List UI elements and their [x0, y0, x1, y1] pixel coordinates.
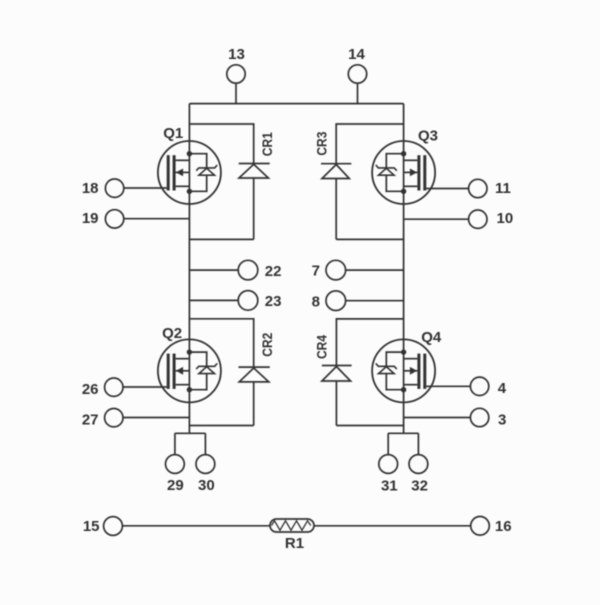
pin 13: [227, 46, 245, 104]
diode CR2: [189, 319, 275, 426]
pin 16: [471, 517, 512, 536]
diode CR4: [314, 319, 404, 426]
svg-text:CR1: CR1: [259, 132, 275, 156]
svg-text:26: 26: [82, 381, 99, 398]
svg-text:CR4: CR4: [314, 335, 330, 359]
wire R1 left: [122, 525, 270, 527]
pin 23: [189, 291, 281, 311]
wire left fork: [175, 433, 206, 454]
pin 32: [409, 455, 428, 495]
pin 30: [196, 455, 215, 494]
pin 26: [82, 378, 167, 398]
diode CR1: [189, 124, 275, 239]
svg-text:CR2: CR2: [259, 333, 275, 357]
wire right fork: [388, 433, 418, 454]
transistor Q1: [158, 125, 221, 204]
svg-text:23: 23: [265, 293, 282, 310]
svg-text:16: 16: [495, 518, 512, 535]
pin 27: [82, 409, 190, 429]
svg-text:13: 13: [228, 46, 245, 63]
pin 3: [404, 408, 507, 428]
svg-text:29: 29: [167, 477, 184, 494]
svg-text:10: 10: [497, 210, 514, 227]
pin 22: [189, 260, 281, 280]
svg-text:11: 11: [495, 180, 511, 197]
svg-text:31: 31: [381, 477, 398, 494]
pin 8: [312, 291, 404, 311]
pin 10: [404, 210, 514, 228]
svg-text:CR3: CR3: [314, 131, 330, 155]
svg-text:R1: R1: [285, 535, 304, 552]
pin 19: [82, 210, 190, 228]
pin 18: [82, 179, 167, 197]
pin 11: [426, 179, 511, 197]
svg-text:14: 14: [348, 46, 365, 63]
transistor Q4: [372, 329, 442, 402]
svg-text:30: 30: [198, 477, 215, 494]
wire left rail: [188, 104, 190, 434]
transistor Q2: [158, 325, 221, 402]
pin 31: [379, 455, 398, 495]
pin 7: [312, 260, 404, 280]
diode CR3: [314, 124, 404, 239]
wire right rail: [403, 104, 405, 434]
resistor R1: [270, 519, 314, 552]
wire top bus: [189, 103, 403, 105]
svg-text:15: 15: [83, 518, 100, 535]
svg-text:3: 3: [498, 412, 506, 429]
svg-text:4: 4: [498, 380, 507, 397]
svg-text:7: 7: [312, 263, 320, 280]
svg-text:32: 32: [411, 477, 428, 494]
svg-text:Q4: Q4: [421, 329, 442, 346]
wire R1 right: [314, 525, 471, 527]
svg-text:Q1: Q1: [163, 125, 183, 142]
svg-text:27: 27: [82, 412, 99, 429]
pin 15: [83, 517, 123, 536]
svg-text:8: 8: [312, 294, 320, 311]
svg-text:19: 19: [82, 210, 99, 227]
pin 29: [166, 455, 185, 494]
pin 4: [426, 377, 507, 397]
svg-text:Q2: Q2: [162, 325, 182, 342]
svg-text:18: 18: [82, 180, 99, 197]
transistor Q3: [372, 128, 438, 205]
svg-text:22: 22: [265, 263, 282, 280]
svg-text:Q3: Q3: [418, 128, 438, 145]
pin 14: [348, 46, 367, 104]
